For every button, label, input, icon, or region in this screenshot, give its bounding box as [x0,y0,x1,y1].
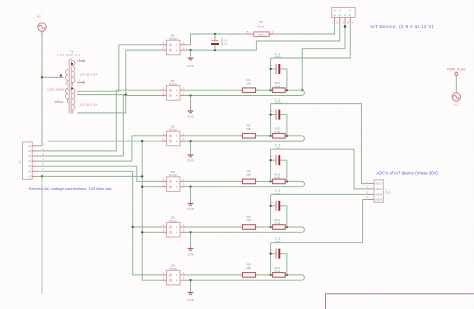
svg-text:S-: S- [339,14,342,17]
bridge rectifier B4 [162,170,186,191]
wire PWR_FLAG to AC2 [455,76,457,93]
svg-text:10k: 10k [246,127,251,131]
note external AC voltage [29,186,112,191]
wire T1 secondary tap2 join [80,94,126,96]
node B6 divider node R [286,274,288,276]
node B6 divider node L [269,274,271,276]
node junction common/pin7 [141,175,143,177]
svg-text:TR5x20: TR5x20 [258,34,266,36]
wire AC line to T1 primary [42,76,54,78]
wire X1 pin3 to B2 AC2 [37,96,162,157]
svg-text:ADC2: ADC2 [375,187,382,191]
node B6 out- junction [189,279,191,281]
resistor RL3 4.7k [271,172,287,183]
wire IoT pin4 to B2 divider tap [271,22,351,59]
connector ADC inputs [366,180,391,202]
wire R2 to divider node [257,135,271,137]
wire X1 pin5 to B4 AC1 [37,166,162,181]
svg-text:GND: GND [187,159,195,163]
svg-text:External AC voltage connection: External AC voltage connections, 125 Max… [29,186,112,191]
ground GND3 [187,141,195,163]
svg-text:ADC3: ADC3 [375,193,382,197]
svg-text:100u: 100u [275,101,282,105]
node junction pin6/B5 [132,226,134,228]
svg-text:100u: 100u [275,192,282,196]
svg-text:10k: 10k [246,81,251,85]
svg-text:C_0: C_0 [224,39,228,45]
node T1 tap junction [125,93,127,95]
node B5 divider node L [269,226,271,228]
wire B3 AC2 return line [48,140,162,142]
node C_5 junction [269,253,271,255]
wire T1 secondary bottom to B1 AC2 [80,50,162,113]
capacitor C_4 100u [271,189,287,227]
wire B3 out+ to R2 [185,135,240,137]
wire X1 pin7 to common return [37,175,142,177]
wire B3 tap to ADC pin1 [271,104,369,184]
wire branch to B4 AC2 [142,186,161,188]
resistor RL1 4.7k [271,81,287,92]
fuse F6 [246,20,277,36]
ground GND2 [187,96,195,119]
svg-text:+V: +V [333,10,336,13]
wire B1 out- to IoT pin2 [256,22,339,51]
svg-text:PWR_FLAG: PWR_FLAG [447,67,466,71]
capacitor C_3 100u [271,143,287,181]
wire B6 tap to ADC pin4 [271,200,369,243]
ground GND1 [187,50,195,68]
capacitor C_5 100u [271,237,287,275]
capacitor C_2 100u [271,97,287,135]
node B3 out- junction [189,140,191,142]
wire common return vertical to B6 AC2 [142,141,161,280]
svg-text:Bridge: Bridge [169,128,178,132]
wire B6 out+ to R5 [185,274,240,276]
svg-text:+: + [271,155,273,159]
wire B1 out+ to fuse [185,34,246,45]
svg-text:Bridge: Bridge [169,219,178,223]
wire B5 out+ to R4 [185,226,240,228]
node B5 out- junction [189,231,191,233]
wire B2 divider return hairpin [185,90,304,95]
node B4 divider node L [269,180,271,182]
svg-text:Fuse: Fuse [258,24,265,28]
wire R4 to divider node [257,226,271,228]
node B5 divider node R [286,226,288,228]
svg-text:ADC4: ADC4 [375,198,382,202]
power flag PWR_FLAG [447,67,466,75]
svg-text:Bridge: Bridge [169,267,178,271]
wire B3 divider return hairpin [185,136,304,141]
svg-text:4.7k: 4.7k [275,176,281,180]
svg-text:100u: 100u [275,146,282,150]
resistor R4 10k [240,215,258,230]
node junction common/B3 [141,140,143,142]
connector X1 external AC [18,142,45,179]
svg-text:IoT Device. (0.5 A at 12 V): IoT Device. (0.5 A at 12 V) [370,24,433,29]
svg-text:GND: GND [187,207,195,211]
node B4 out- junction [189,186,191,188]
wire X1 pin4 to B3 AC1 [37,136,162,161]
svg-text:ADC1: ADC1 [375,182,382,186]
wire branch to B5 AC2 [142,231,161,233]
svg-text:10k: 10k [246,173,251,177]
wire pin7 down stub [41,176,43,294]
wire X1 pin6 to B5/B6 AC1 [37,171,162,275]
wire B4 divider return hairpin [185,181,304,186]
wire IoT pin3 sense to B2 divider gnd [302,22,345,91]
svg-text:4.7k: 4.7k [275,84,281,88]
bridge rectifier B1 [162,33,186,54]
ground GND4 [187,187,195,211]
wire B5 divider return hairpin [185,227,304,232]
wire B2 out+ to R1 [185,89,240,91]
bridge rectifier B3 [162,124,186,145]
svg-text:Bridge: Bridge [169,37,178,41]
note IoT device [370,24,433,29]
node B3 divider node R [286,135,288,137]
resistor R3 10k [240,169,258,184]
AC source V2 [452,93,460,107]
wire AC source to X1 pin1 [41,35,43,146]
resistor RL5 4.7k [271,266,287,277]
svg-text:-V: -V [339,10,342,13]
wire B6 divider return hairpin [185,275,304,280]
svg-text:AC: AC [454,103,459,107]
node B1 out- junction [189,49,191,51]
svg-text:G: G [344,14,346,17]
svg-text:ADC's of IoT device (Vmax 30V): ADC's of IoT device (Vmax 30V) [376,170,438,175]
resistor R2 10k [240,124,258,139]
svg-text:GND: GND [187,64,195,68]
svg-text:X1: X1 [18,160,22,164]
wire branch to B5 AC1 [133,226,162,228]
note ADC of IoT device [376,170,438,175]
svg-text:+: + [271,248,273,252]
wire R5 to divider node [257,274,271,276]
wire B1 out- rail [185,49,256,51]
svg-text:AC: AC [37,15,42,19]
svg-text:GND: GND [385,192,390,194]
svg-text:+: + [271,109,273,113]
node sense junction [301,89,303,91]
capacitor C_0 4400u [210,34,227,50]
node pin3 mark [344,25,347,28]
node junction common/B5 [141,231,143,233]
ground GND5 [187,232,195,256]
svg-text:4.7k: 4.7k [275,269,281,273]
node C_4 junction [269,205,271,207]
node junction common/B4 [141,186,143,188]
AC source V1 [37,15,46,35]
svg-text:+: + [210,37,212,41]
node B2 divider node R [286,89,288,91]
connector IoT device power [332,7,355,24]
node C_0 top junction [214,33,216,35]
wire B5 tap to ADC pin3 [271,193,369,195]
svg-text:F24-600-C2: F24-600-C2 [57,53,81,57]
node B2 out- junction [189,94,191,96]
wire R1 to divider node [257,89,271,91]
svg-text:+: + [271,63,273,67]
svg-text:GND: GND [187,115,195,119]
wire X1 pin1 stub to AC line [37,145,42,147]
ground GND6 [187,280,195,302]
transformer T1 F24-600-C2 [47,50,98,114]
svg-text:12V @ 0.5A: 12V @ 0.5A [79,103,97,107]
node C_0 bottom junction [214,49,216,51]
svg-text:100u: 100u [275,240,282,244]
bridge rectifier B6 [162,264,186,285]
bridge rectifier B2 [162,79,186,100]
bridge rectifier B5 [162,216,186,237]
node C_2 junction [269,113,271,115]
wire X1 pin2 to B2 AC1 [37,90,162,151]
node junction AC/primary [41,76,43,78]
svg-text:GND: GND [187,298,195,302]
svg-text:Bridge: Bridge [169,173,178,177]
wire B4 out+ to R3 [185,180,240,182]
svg-text:4.7k: 4.7k [275,221,281,225]
wire T1 secondary tap to B1 AC1 [80,45,162,91]
svg-text:Bridge: Bridge [169,82,178,86]
wire B4 tap to ADC pin2 [271,149,369,189]
capacitor C_1 100u [271,52,287,90]
svg-text:10k: 10k [246,266,251,270]
svg-text:10k: 10k [246,218,251,222]
resistor RL2 4.7k [271,127,287,138]
node B3 divider node L [269,135,271,137]
svg-text:4.7k: 4.7k [275,130,281,134]
svg-text:GND: GND [187,253,195,257]
node B4 divider node R [286,180,288,182]
svg-text:+: + [271,200,273,204]
svg-text:120V 50/60 Hz: 120V 50/60 Hz [47,88,70,92]
svg-text:100u: 100u [275,55,282,59]
wire fuse to IoT pin1 [277,22,335,35]
svg-text:S+: S+ [333,14,337,17]
node B2 divider node L [269,89,271,91]
svg-text:12V @ 0.5A: 12V @ 0.5A [79,72,97,76]
node junction X1 pin7 [41,175,43,177]
resistor RL4 4.7k [271,218,287,229]
frame border corner [326,294,474,309]
wire R3 to divider node [257,180,271,182]
resistor R1 10k [240,78,258,93]
node C_3 junction [269,159,271,161]
resistor R5 10k [240,263,258,278]
node C_1 junction [269,68,271,70]
